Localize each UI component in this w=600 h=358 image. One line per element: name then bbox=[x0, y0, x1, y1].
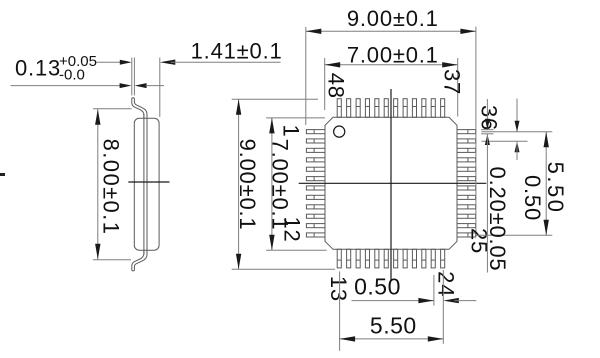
svg-text:0.50: 0.50 bbox=[520, 175, 545, 221]
pin 34 (right row) bbox=[457, 148, 476, 152]
svg-text:7.00±0.1: 7.00±0.1 bbox=[347, 43, 439, 68]
pin 32 (right row) bbox=[457, 167, 476, 171]
dimension 8.00±0.1: top extension line bbox=[93, 108, 132, 110]
pin 19 (bottom row) bbox=[394, 249, 398, 268]
extension line at pin 24 centerline (shared by 0.50 and 5.50) bbox=[442, 270, 444, 344]
dimension 0.50 (right): lower arrow and tail bbox=[515, 141, 520, 152]
dimension 0.50 (bottom): right arrow with tail bbox=[443, 298, 459, 303]
pin 5 (left row) bbox=[306, 167, 325, 171]
dimension 5.50 (bottom): extension line at pin 13 centerline bbox=[339, 271, 341, 350]
dimension 8.00±0.1: dimension line with arrows bbox=[97, 109, 99, 259]
dimension 0.20±0.05: extension lines at pin 36 edges bbox=[481, 129, 494, 131]
dimension 0.13: lower dimension line left arrow bbox=[11, 85, 122, 87]
pin 25 (right row) bbox=[457, 233, 476, 237]
dimension 5.50 (bottom): dimension line with arrows bbox=[340, 338, 444, 340]
pin 17 (bottom row) bbox=[375, 249, 379, 268]
pin 24 (bottom row) bbox=[441, 249, 445, 268]
pin 12 (left row) bbox=[306, 233, 325, 237]
dimension 7.00±0.1 (left): dimension line with arrows bbox=[271, 118, 273, 250]
svg-text:9.00±0.1: 9.00±0.1 bbox=[235, 139, 260, 231]
svg-text:5.50: 5.50 bbox=[370, 313, 417, 339]
top view: pin-1 indicator circle bbox=[334, 126, 345, 137]
dimension 0.20±0.05: lower arrow and line bbox=[485, 134, 490, 145]
pin 9 (left row) bbox=[306, 205, 325, 209]
dimension 0.13: lower dimension line right arrow bbox=[135, 83, 147, 88]
dimension 7.00±0.1 (top): right extension line bbox=[457, 58, 459, 117]
dimension 0.50 (bottom): left line with arrow bbox=[352, 300, 434, 302]
dimension 9.00±0.1 (left): top extension line bbox=[232, 98, 318, 100]
top view: horizontal centerline bbox=[299, 182, 487, 184]
side view: package body outline bbox=[134, 118, 159, 250]
pin 8 (left row) bbox=[306, 195, 325, 199]
pin 37 (top row) bbox=[441, 99, 445, 118]
pin 30 (right row) bbox=[457, 186, 476, 190]
side view: lead plane inner lines through body bbox=[143, 114, 145, 255]
pin 26 (right row) bbox=[457, 224, 476, 228]
pin 45 (top row) bbox=[365, 99, 369, 118]
pin 47 (top row) bbox=[347, 99, 351, 118]
pin 15 (bottom row) bbox=[356, 249, 360, 268]
dimension 7.00±0.1 (top): left extension line bbox=[324, 58, 326, 110]
pin 10 (left row) bbox=[306, 214, 325, 218]
dimension 9.00±0.1 (top): right extension line bbox=[475, 27, 477, 237]
pin 20 (bottom row) bbox=[403, 249, 407, 268]
pin 13 (bottom row) bbox=[337, 249, 341, 268]
dimension 8.00±0.1: bottom extension line bbox=[93, 259, 131, 261]
pin 38 (top row) bbox=[431, 99, 435, 118]
pin 23 (bottom row) bbox=[431, 249, 435, 268]
side view: horizontal centerline bbox=[128, 181, 169, 183]
dimension 5.50 (right): dimension line with arrows bbox=[545, 132, 547, 235]
dimension 9.00±0.1 (top): left extension line bbox=[305, 27, 307, 125]
svg-text:8.00±0.1: 8.00±0.1 bbox=[99, 139, 124, 236]
extension line at pin 25 centerline (5.50 lower) bbox=[476, 234, 552, 236]
pin 21 (bottom row) bbox=[412, 249, 416, 268]
dimension 7.00±0.1 (top): dimension line with arrows bbox=[325, 64, 458, 66]
svg-text:9.00±0.1: 9.00±0.1 bbox=[347, 6, 439, 31]
svg-text:48: 48 bbox=[324, 73, 349, 99]
svg-text:36: 36 bbox=[477, 105, 502, 131]
svg-text:5.50: 5.50 bbox=[543, 162, 568, 215]
dimension 0.13: upper leader line with arrow bbox=[97, 61, 122, 63]
dimension 7.00±0.1 (left): bottom extension line bbox=[266, 249, 327, 251]
svg-text:0.20±0.05: 0.20±0.05 bbox=[485, 167, 510, 272]
pin 3 (left row) bbox=[306, 148, 325, 152]
pin 36 (right row) bbox=[457, 130, 476, 134]
pin 18 (bottom row) bbox=[384, 249, 388, 268]
pin 1 (left row) bbox=[306, 130, 325, 134]
dimension 0.50 (right): upper arrow bbox=[516, 99, 518, 132]
pin 28 (right row) bbox=[457, 205, 476, 209]
pin 4 (left row) bbox=[306, 158, 325, 162]
dimension 0.13: extension lines above lead tip bbox=[131, 58, 133, 96]
pin 6 (left row) bbox=[306, 177, 325, 181]
pin 27 (right row) bbox=[457, 214, 476, 218]
pin 33 (right row) bbox=[457, 158, 476, 162]
pin 11 (left row) bbox=[306, 224, 325, 228]
dimension 9.00±0.1 (left): dimension line with arrows bbox=[238, 99, 240, 269]
svg-text:13: 13 bbox=[326, 276, 351, 302]
svg-text:37: 37 bbox=[440, 69, 465, 95]
dimension 0.20±0.05: upper arrow bbox=[486, 99, 488, 130]
svg-text:-0.0: -0.0 bbox=[59, 67, 85, 84]
pin 46 (top row) bbox=[356, 99, 360, 118]
pin 31 (right row) bbox=[457, 177, 476, 181]
dimension 1.41±0.1: dimension line with arrow bbox=[160, 60, 176, 65]
pin 40 (top row) bbox=[412, 99, 416, 118]
extension line at pin 35 centerline (0.50 lower) bbox=[482, 140, 528, 142]
svg-text:0.13: 0.13 bbox=[15, 56, 61, 81]
top view: package body octagon outline bbox=[325, 117, 457, 249]
svg-text:1.41±0.1: 1.41±0.1 bbox=[191, 38, 283, 63]
side view: bottom gull-wing lead bbox=[132, 250, 144, 270]
svg-text:24: 24 bbox=[434, 271, 459, 297]
pin 44 (top row) bbox=[375, 99, 379, 118]
side view: top gull-wing lead bbox=[132, 99, 144, 119]
pin 43 (top row) bbox=[384, 99, 388, 118]
svg-text:1: 1 bbox=[279, 124, 304, 137]
pin 2 (left row) bbox=[306, 139, 325, 143]
dimension 1.41±0.1: extension line at body right edge bbox=[159, 58, 161, 117]
pin 39 (top row) bbox=[422, 99, 426, 118]
pin 22 (bottom row) bbox=[422, 249, 426, 268]
svg-text:12: 12 bbox=[280, 216, 305, 242]
dimension 9.00±0.1 (top): dimension line with arrows bbox=[306, 30, 476, 32]
dimension 0.50 (bottom): extension line at pin 23 centerline bbox=[433, 275, 435, 306]
pin 42 (top row) bbox=[394, 99, 398, 118]
dimension 7.00±0.1 (left): top extension line bbox=[266, 117, 325, 119]
pin 35 (right row) bbox=[457, 139, 476, 143]
pin 16 (bottom row) bbox=[365, 249, 369, 268]
svg-text:0.50: 0.50 bbox=[354, 274, 401, 300]
extension line at pin 36 centerline (shared by 0.50 and 5.50) bbox=[482, 131, 553, 133]
pin 41 (top row) bbox=[403, 99, 407, 118]
pin 48 (top row) bbox=[337, 99, 341, 118]
pin 14 (bottom row) bbox=[347, 249, 351, 268]
top view: vertical centerline bbox=[390, 89, 392, 281]
pin 7 (left row) bbox=[306, 186, 325, 190]
tick mark at left image edge bbox=[0, 173, 5, 176]
pin 29 (right row) bbox=[457, 195, 476, 199]
dimension 9.00±0.1 (left): bottom extension line bbox=[232, 268, 335, 270]
